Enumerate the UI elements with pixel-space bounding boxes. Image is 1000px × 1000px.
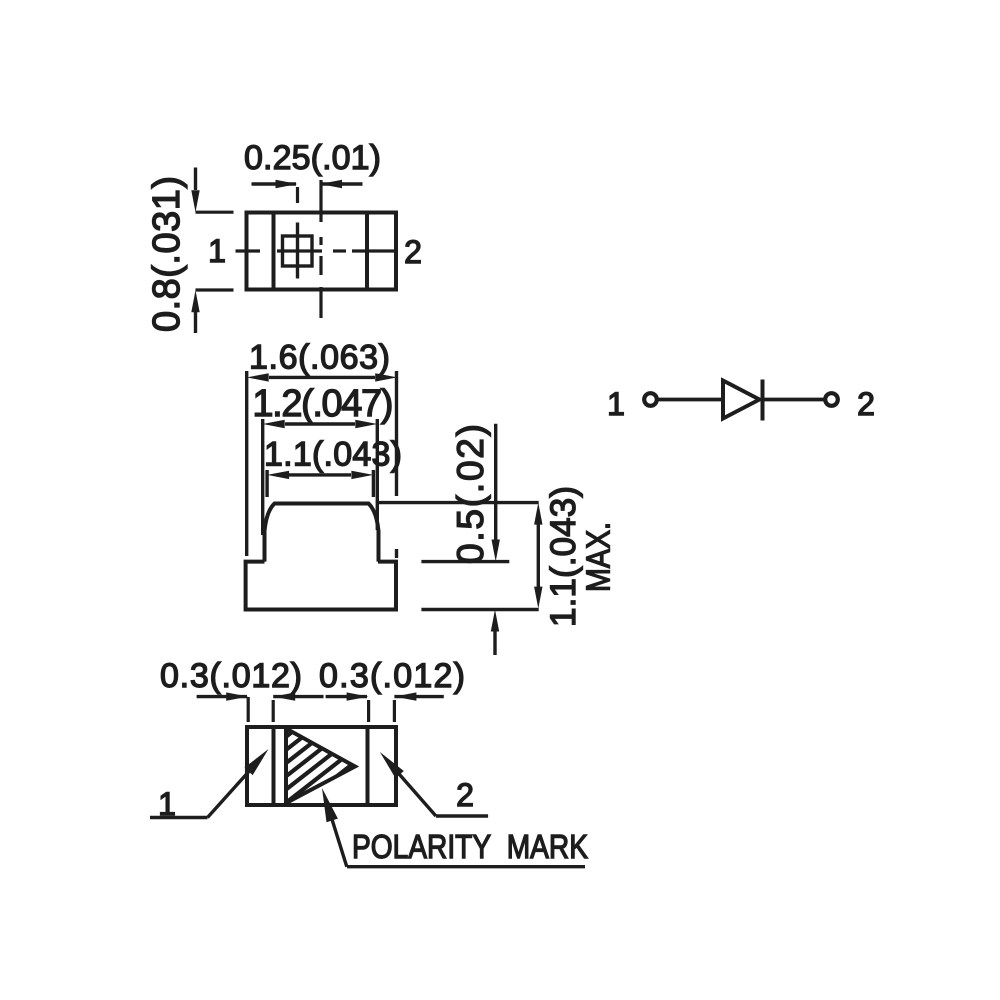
svg-text:POLARITY MARK: POLARITY MARK (352, 828, 588, 865)
svg-text:2: 2 (857, 386, 875, 422)
svg-text:1.1(.043): 1.1(.043) (544, 486, 583, 627)
dimension 0.25 left extension line (296, 187, 299, 203)
dimension 0.8 top extension line (196, 211, 234, 214)
side view: dimension 1.6 right extension line (395, 371, 398, 496)
top view: vertical center line (dashed) (319, 180, 322, 222)
dimension 1.1 MAX line with arrows (537, 524, 540, 587)
top view: terminal 2 boundary line (365, 213, 369, 290)
bottom view: terminal 2 leader line (436, 814, 488, 817)
top view: package body outline (247, 213, 397, 290)
svg-text:0.8(.031): 0.8(.031) (146, 176, 188, 332)
top view: horizontal center line (dashed) (236, 249, 261, 252)
top view: emitting chip square (283, 236, 313, 266)
svg-text:1.2(.047): 1.2(.047) (252, 383, 393, 425)
bottom view: extension lines (247, 697, 250, 722)
svg-text:1: 1 (208, 233, 226, 269)
side view: package base outline (246, 562, 396, 610)
svg-text:MAX.: MAX. (580, 522, 617, 592)
side view: dimension 1.1 line with arrows (289, 473, 351, 476)
svg-text:2: 2 (404, 234, 422, 270)
diode symbol: anode terminal circle (644, 393, 657, 406)
side view: dimension 1.1 left extension line (265, 470, 268, 497)
dimension 0.8 lower arrow (194, 312, 197, 333)
side view: epoxy lens outline (265, 504, 379, 562)
dimension 0.5 lower pointer arrow (493, 631, 496, 655)
side view: dimension 1.2 right extension line (376, 419, 379, 530)
svg-text:2: 2 (456, 777, 474, 813)
bottom view: package body outline (247, 727, 396, 805)
diode symbol: cathode terminal circle (825, 393, 838, 406)
side view: dimension 1.6 left extension line (245, 371, 248, 556)
bottom view: terminal 1 leader line (150, 816, 208, 819)
bottom view: terminal 1 boundary line (272, 727, 276, 805)
bottom view: terminal 2 boundary line (366, 727, 370, 805)
bottom view: polarity mark triangle (hatched) (286, 729, 355, 804)
diode symbol: anode wire (658, 398, 723, 402)
svg-text:0.25(.01): 0.25(.01) (244, 139, 381, 177)
dimension 0.8 upper arrow (194, 168, 197, 191)
dimension 0.5 line with arrow (494, 424, 497, 540)
svg-text:1.1(.043): 1.1(.043) (264, 436, 402, 474)
bottom view: left 0.3 dimension arrows (197, 695, 247, 698)
polarity mark leader line and arrow (330, 813, 347, 867)
svg-text:1.6(.063): 1.6(.063) (249, 339, 390, 377)
side view: step extension line to the right (421, 560, 509, 563)
dimension 0.8 bottom extension line (196, 288, 234, 291)
diode symbol: cathode bar (761, 380, 765, 421)
diode symbol: cathode wire (763, 398, 826, 402)
svg-text:0.5(.02): 0.5(.02) (450, 424, 491, 564)
side view: dimension 1.2 left extension line (261, 419, 264, 535)
diode symbol: triangle (723, 381, 760, 419)
svg-text:0.3(.012): 0.3(.012) (319, 657, 465, 695)
top view: terminal 1 boundary line (272, 213, 276, 290)
top view: chip crosshair vertical (296, 223, 299, 279)
side view: dimension 1.6 line with arrows (269, 376, 375, 379)
dimension 0.25 left arrow (252, 182, 297, 185)
side view: dimension 1.2 line with arrows (285, 422, 355, 425)
dimension 0.25 right arrow (322, 182, 363, 185)
bottom view: right 0.3 dimension arrows (326, 695, 367, 698)
side view: dimension 1.1 right extension line (372, 470, 375, 497)
side view: lens top extension line to the right (377, 501, 539, 504)
svg-text:0.3(.012): 0.3(.012) (160, 657, 302, 695)
side view: base bottom extension line to the right (421, 608, 538, 611)
svg-text:1: 1 (607, 386, 625, 422)
